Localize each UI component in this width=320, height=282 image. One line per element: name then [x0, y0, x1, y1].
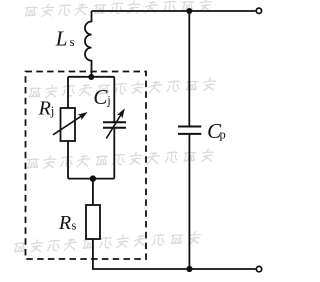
wire: right branch lower	[113, 128, 115, 179]
node: bottom junction dot (Cp tap)	[186, 266, 192, 272]
svg-text:R: R	[58, 212, 71, 234]
svg-text:R: R	[38, 98, 51, 120]
capacitor Cp	[178, 127, 201, 134]
wire: parallel section bottom rail	[68, 178, 114, 180]
terminal: top open circle	[256, 8, 261, 13]
node: junction dot below Ls	[88, 74, 94, 80]
wire: Cp lower lead	[188, 134, 190, 269]
svg-text:s: s	[70, 35, 75, 49]
watermark (decorative)	[14, 0, 216, 253]
label Ls	[55, 27, 75, 51]
node: top junction dot (Cp tap)	[186, 8, 192, 14]
dashed enclosure (junction diode model)	[26, 72, 147, 260]
label Rs	[58, 212, 77, 234]
wire: Cp upper lead	[188, 11, 190, 127]
wire: top horizontal (node 1)	[92, 10, 256, 12]
svg-text:L: L	[55, 27, 68, 51]
wire: junction to Rs	[92, 179, 94, 205]
inductor Ls	[85, 11, 92, 77]
label Rj	[38, 98, 55, 120]
wire: parallel section top rail	[68, 76, 114, 78]
svg-text:j: j	[106, 94, 110, 108]
wire: left branch lower	[67, 141, 69, 179]
wire: right branch upper	[113, 77, 115, 122]
wire: Rs to bottom rail	[93, 239, 256, 269]
label Cp	[207, 119, 226, 143]
svg-text:j: j	[50, 104, 54, 118]
terminal: bottom open circle	[256, 266, 261, 271]
resistor Rj (variable)	[53, 108, 88, 141]
svg-text:C: C	[93, 85, 108, 109]
svg-text:s: s	[72, 219, 77, 233]
wire: left branch upper	[67, 77, 69, 108]
resistor Rs	[86, 205, 100, 239]
label Cj	[93, 85, 110, 109]
node: junction dot below parallel section	[90, 175, 96, 181]
capacitor Cj (variable)	[103, 108, 126, 138]
svg-text:p: p	[220, 128, 226, 142]
